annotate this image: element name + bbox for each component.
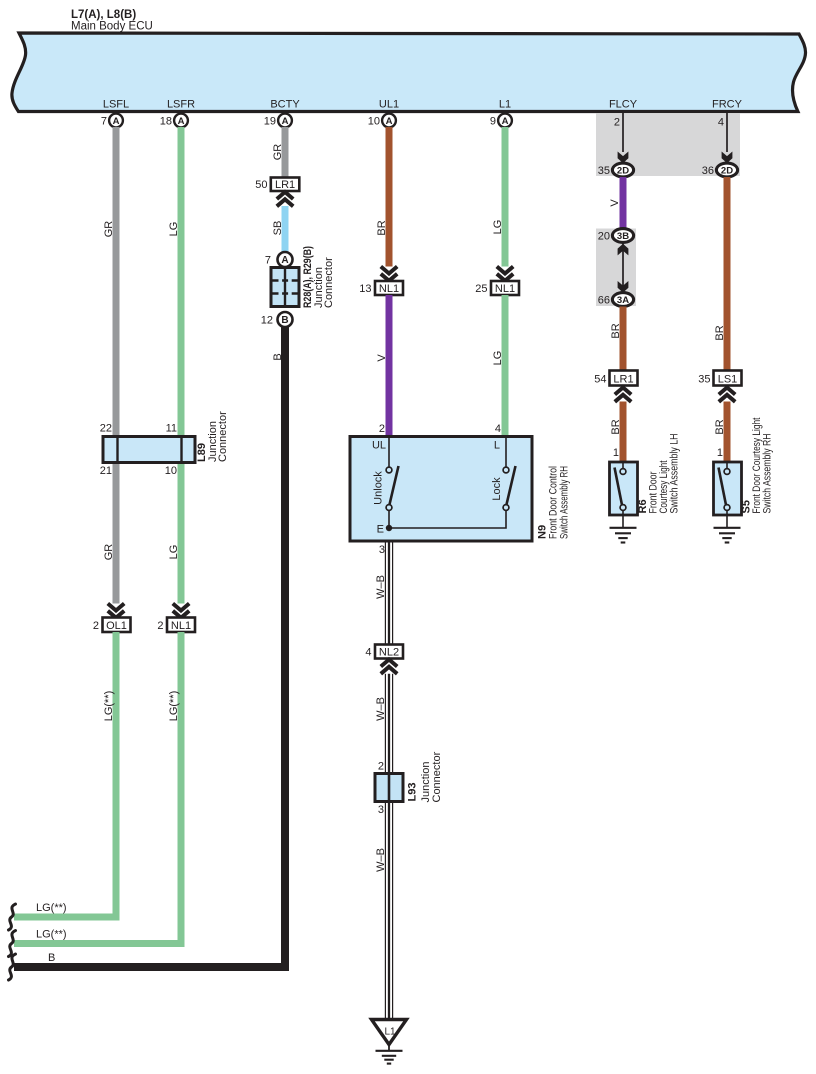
- svg-text:2: 2: [93, 620, 99, 632]
- node E junction dot: [386, 525, 392, 531]
- svg-text:A: A: [502, 116, 509, 127]
- svg-text:25: 25: [475, 283, 487, 295]
- svg-text:LR1: LR1: [275, 179, 295, 191]
- continuation squiggle of LG(**) wire: [9, 904, 16, 930]
- svg-text:W–B: W–B: [375, 697, 387, 721]
- svg-text:L1: L1: [499, 99, 511, 111]
- svg-text:UL1: UL1: [379, 99, 399, 111]
- svg-text:2: 2: [379, 423, 385, 435]
- svg-text:E: E: [377, 524, 384, 536]
- wire LG(**) from NL1 to left edge continuation: [14, 632, 181, 944]
- wire LG from L1 pin 9 to connector NL1: [502, 127, 509, 267]
- continuation squiggle of LG(**) wire: [9, 931, 16, 957]
- svg-text:GR: GR: [103, 221, 115, 238]
- svg-text:W–B: W–B: [375, 848, 387, 872]
- svg-text:Unlock: Unlock: [373, 471, 385, 505]
- svg-text:FLCY: FLCY: [609, 99, 638, 111]
- lock switch lead to pin 4: [505, 437, 507, 468]
- svg-text:35: 35: [598, 165, 610, 177]
- R6 switch lead: [622, 462, 624, 469]
- svg-text:NL1: NL1: [171, 620, 191, 632]
- wire from node E to lock switch: [389, 510, 506, 528]
- svg-text:BR: BR: [714, 325, 726, 340]
- svg-text:Switch Assembly RH: Switch Assembly RH: [559, 466, 571, 539]
- wire from FRCY to connector 2D: [726, 113, 728, 152]
- wire LG(**) from OL1 to left edge continuation: [14, 632, 116, 917]
- wire between 3B and 3A: [622, 243, 624, 294]
- ground stem: [388, 1045, 390, 1051]
- wire GR from BCTY pin 19 to connector LR1: [282, 127, 289, 178]
- connector LR1 pin 54: [594, 371, 637, 386]
- svg-text:10: 10: [368, 116, 380, 128]
- svg-text:19: 19: [264, 116, 276, 128]
- connector pin A at BCTY: [278, 114, 292, 128]
- svg-text:BR: BR: [376, 220, 388, 235]
- connector chevron out of LR1: [277, 192, 293, 206]
- connector NL2 pin 4: [365, 645, 403, 659]
- svg-text:OL1: OL1: [106, 620, 127, 632]
- wire BR from LS1 to switch S5 pin 1: [724, 402, 731, 463]
- svg-text:A: A: [178, 116, 185, 127]
- svg-text:1: 1: [717, 447, 723, 459]
- svg-text:2: 2: [614, 117, 620, 129]
- svg-text:3: 3: [379, 544, 385, 556]
- wire B from R28 pin 12 to left edge continuation: [14, 327, 285, 968]
- junction connector pin B (R28): [278, 312, 293, 327]
- unlock switch lower contact: [386, 505, 392, 511]
- svg-text:V: V: [376, 354, 388, 362]
- connector chevron out of LR1: [615, 388, 631, 402]
- connector chevron into NL1: [173, 604, 189, 618]
- svg-text:1: 1: [613, 447, 619, 459]
- svg-text:18: 18: [160, 116, 172, 128]
- svg-text:V: V: [609, 199, 621, 207]
- harness connector 3A pin 66: [598, 293, 634, 307]
- wire BR from 2D to connector LS1: [724, 177, 731, 371]
- junction connector L93: [375, 774, 403, 802]
- connector pin A at LSFR: [174, 114, 188, 128]
- wire from FLCY to connector 2D: [622, 113, 624, 152]
- connector pin A at LSFL: [109, 114, 123, 128]
- svg-text:4: 4: [718, 117, 724, 129]
- wire GR from LSFL pin 7 to junction connector L89 pin 22: [113, 127, 120, 437]
- wire V from 2D to connector 3B: [620, 177, 627, 229]
- wire W-B from NL2 to junction connector L93 pin 2: [385, 674, 392, 774]
- svg-text:LG(**): LG(**): [168, 691, 180, 722]
- svg-text:A: A: [281, 255, 288, 266]
- svg-text:LG: LG: [168, 545, 180, 560]
- svg-text:A: A: [386, 116, 393, 127]
- svg-text:B: B: [48, 952, 55, 964]
- connector pin A at L1: [498, 114, 512, 128]
- junction connector L89: [103, 437, 195, 463]
- svg-text:Main Body ECU: Main Body ECU: [71, 21, 153, 33]
- svg-text:2D: 2D: [617, 166, 629, 177]
- S5 lead to ground: [726, 510, 728, 527]
- connector NL1 pin 13: [359, 281, 403, 295]
- svg-text:4: 4: [365, 647, 371, 659]
- svg-text:L7(A), L8(B): L7(A), L8(B): [71, 9, 136, 21]
- courtesy light switch R6 body: [610, 462, 638, 515]
- svg-text:Switch Assembly RH: Switch Assembly RH: [762, 433, 774, 513]
- shaded area around FLCY/FRCY harness connectors 2D: [596, 113, 740, 176]
- ground symbol at L1: [376, 1051, 403, 1064]
- connector chevron into NL1: [381, 267, 397, 281]
- svg-text:2: 2: [378, 761, 384, 773]
- svg-text:B: B: [272, 353, 284, 360]
- wire LG from LSFR pin 18 to junction connector L89 pin 11: [178, 127, 185, 437]
- svg-text:L: L: [494, 440, 500, 452]
- svg-text:LR1: LR1: [613, 373, 633, 385]
- svg-text:LG(**): LG(**): [36, 902, 67, 914]
- svg-text:BR: BR: [610, 323, 622, 338]
- svg-text:2D: 2D: [721, 166, 733, 177]
- svg-text:NL1: NL1: [495, 283, 515, 295]
- svg-text:LG: LG: [168, 222, 180, 237]
- S5 switch blade: [719, 468, 727, 506]
- svg-text:54: 54: [594, 374, 606, 386]
- svg-text:13: 13: [359, 283, 371, 295]
- svg-text:Connector: Connector: [217, 411, 229, 462]
- S5 switch upper contact: [724, 469, 730, 475]
- junction connector R28(A), R29(B): [271, 268, 299, 307]
- svg-text:L1: L1: [384, 1027, 396, 1038]
- unlock switch blade: [390, 466, 399, 505]
- harness connector 2D pin 35: [598, 163, 634, 177]
- svg-text:2: 2: [157, 620, 163, 632]
- svg-text:12: 12: [261, 315, 273, 327]
- harness arrow into 2D: [722, 152, 733, 164]
- svg-text:LSFR: LSFR: [167, 99, 195, 111]
- R6 lead to ground: [622, 510, 624, 527]
- svg-text:3: 3: [378, 804, 384, 816]
- harness arrow into 3A: [618, 281, 629, 293]
- svg-text:7: 7: [101, 116, 107, 128]
- wire from unlock lower contact to node E: [388, 510, 390, 528]
- harness connector 2D pin 36: [702, 163, 738, 177]
- wire V from NL1 to N9 pin 2: [386, 295, 393, 438]
- wire GR from L89 pin 21 to connector OL1: [113, 462, 120, 604]
- svg-text:SB: SB: [272, 221, 284, 236]
- lock switch blade: [507, 466, 516, 505]
- svg-text:UL: UL: [372, 440, 386, 452]
- shaded area around 3B/3A connectors: [596, 229, 636, 307]
- connector OL1 pin 2: [93, 618, 131, 633]
- switch assembly N9 body: [350, 437, 532, 542]
- svg-text:35: 35: [698, 374, 710, 386]
- svg-text:7: 7: [265, 255, 271, 267]
- connector pin A at UL1: [382, 114, 396, 128]
- svg-text:B: B: [281, 315, 288, 326]
- svg-text:W–B: W–B: [375, 575, 387, 599]
- harness arrow into 2D: [618, 152, 629, 164]
- ground symbol at S5: [714, 528, 741, 543]
- svg-text:LS1: LS1: [718, 373, 738, 385]
- connector NL1 pin 2: [157, 618, 195, 633]
- connector chevron into NL1: [497, 267, 513, 281]
- wire BR from 3A to connector LR1: [620, 307, 627, 372]
- svg-text:3A: 3A: [617, 295, 629, 306]
- svg-text:10: 10: [165, 465, 177, 477]
- ECU block: Main Body ECU L7(A), L8(B): [12, 33, 806, 112]
- S5 switch lower contact: [724, 505, 730, 511]
- svg-text:BR: BR: [610, 419, 622, 434]
- wire W-B from N9 pin 3 to connector NL2: [385, 541, 392, 645]
- wire LG from NL1 to N9 pin 4: [502, 295, 509, 438]
- svg-text:A: A: [282, 116, 289, 127]
- svg-text:LG: LG: [492, 351, 504, 366]
- svg-text:LG: LG: [492, 220, 504, 235]
- svg-text:9: 9: [490, 116, 496, 128]
- svg-text:50: 50: [255, 179, 267, 191]
- connector chevron into OL1: [108, 604, 124, 618]
- connector chevron out of NL2: [381, 660, 397, 674]
- svg-text:11: 11: [166, 423, 177, 435]
- connector NL1 pin 25: [475, 281, 519, 295]
- ground point triangle L1: [372, 1020, 407, 1045]
- svg-text:LG(**): LG(**): [36, 929, 67, 941]
- lock switch lower contact: [503, 505, 509, 511]
- unlock switch upper contact: [386, 467, 392, 473]
- wire BR from UL1 pin 10 to connector NL1: [386, 127, 393, 267]
- courtesy light switch S5 body: [714, 462, 742, 515]
- svg-text:Connector: Connector: [431, 751, 443, 802]
- unlock switch lead from pin 2: [388, 437, 390, 468]
- R6 switch lower contact: [620, 505, 626, 511]
- ground symbol at R6: [610, 528, 637, 543]
- svg-text:NL2: NL2: [379, 646, 399, 658]
- svg-text:21: 21: [100, 465, 112, 477]
- svg-text:BCTY: BCTY: [270, 99, 300, 111]
- wire SB from LR1 to junction connector R28 pin 7: [282, 206, 289, 253]
- harness arrow out of 3B: [618, 244, 629, 256]
- svg-text:L93: L93: [407, 783, 419, 802]
- harness connector 3B pin 20: [598, 229, 634, 243]
- svg-text:36: 36: [702, 165, 714, 177]
- svg-text:GR: GR: [103, 544, 115, 561]
- svg-text:A: A: [113, 116, 120, 127]
- svg-text:Lock: Lock: [491, 477, 503, 501]
- connector chevron out of LS1: [719, 388, 735, 402]
- svg-text:4: 4: [495, 423, 501, 435]
- svg-text:LG(**): LG(**): [103, 691, 115, 722]
- junction connector pin A (R28): [278, 252, 293, 267]
- svg-text:BR: BR: [714, 419, 726, 434]
- connector LS1 pin 35: [698, 371, 741, 386]
- svg-text:FRCY: FRCY: [712, 99, 743, 111]
- R6 switch blade: [615, 468, 623, 506]
- svg-text:NL1: NL1: [379, 283, 399, 295]
- R6 switch upper contact: [620, 469, 626, 475]
- lock switch upper contact: [503, 467, 509, 473]
- svg-text:66: 66: [598, 294, 610, 306]
- connector LR1 pin 50: [255, 178, 299, 192]
- svg-text:LSFL: LSFL: [103, 99, 129, 111]
- svg-text:20: 20: [598, 230, 610, 242]
- svg-text:22: 22: [100, 423, 112, 435]
- wire LG from L89 pin 10 to connector NL1: [178, 462, 185, 604]
- wire W-B from L93 pin 3 to ground point L1: [385, 802, 392, 1020]
- svg-text:Switch Assembly LH: Switch Assembly LH: [669, 433, 681, 513]
- svg-text:Connector: Connector: [323, 257, 335, 308]
- continuation squiggle of B wire: [9, 954, 16, 980]
- svg-text:3B: 3B: [617, 231, 629, 242]
- wire BR from LR1 to switch R6 pin 1: [620, 402, 627, 463]
- S5 switch lead: [726, 462, 728, 469]
- svg-text:GR: GR: [272, 144, 284, 161]
